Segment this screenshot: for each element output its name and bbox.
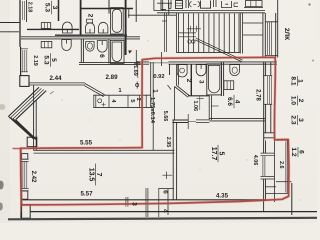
svg-text:1: 1 xyxy=(152,89,159,93)
svg-text:1.69: 1.69 xyxy=(132,65,138,76)
svg-text:2.42: 2.42 xyxy=(30,171,37,183)
svg-text:2.78: 2.78 xyxy=(254,89,260,101)
svg-text:5.66: 5.66 xyxy=(162,111,168,122)
svg-text:5.3: 5.3 xyxy=(44,3,51,12)
svg-text:1: 1 xyxy=(297,79,304,83)
svg-text:6: 6 xyxy=(297,150,304,154)
svg-text:5: 5 xyxy=(50,58,57,62)
svg-text:2.3: 2.3 xyxy=(290,115,297,124)
svg-text:2.44: 2.44 xyxy=(49,75,62,82)
svg-text:0.92: 0.92 xyxy=(153,74,164,80)
svg-text:1.2: 1.2 xyxy=(290,147,297,156)
svg-text:4: 4 xyxy=(233,100,240,104)
svg-text:2: 2 xyxy=(135,98,141,101)
svg-text:2.89: 2.89 xyxy=(105,74,118,81)
svg-text:2.6: 2.6 xyxy=(278,161,284,169)
svg-text:2: 2 xyxy=(87,14,94,18)
svg-text:3: 3 xyxy=(297,118,304,122)
svg-text:7: 7 xyxy=(95,173,102,177)
svg-text:2ЛК: 2ЛК xyxy=(283,28,290,41)
svg-text:17.7: 17.7 xyxy=(210,147,217,161)
svg-text:5.3: 5.3 xyxy=(43,55,50,64)
svg-text:4: 4 xyxy=(162,209,169,213)
svg-text:2: 2 xyxy=(185,79,192,83)
svg-text:8.1: 8.1 xyxy=(290,76,297,85)
svg-text:1.75x0.14: 1.75x0.14 xyxy=(149,97,155,123)
svg-text:5: 5 xyxy=(129,99,135,102)
svg-text:6: 6 xyxy=(98,54,105,58)
svg-text:3: 3 xyxy=(130,202,137,206)
svg-text:6.6: 6.6 xyxy=(226,97,233,106)
svg-text:4.06: 4.06 xyxy=(252,155,258,166)
svg-text:2.95: 2.95 xyxy=(165,137,171,148)
svg-text:5.55: 5.55 xyxy=(80,139,93,146)
svg-text:1.0: 1.0 xyxy=(290,96,297,105)
svg-text:2.19: 2.19 xyxy=(32,55,38,66)
svg-text:2.18: 2.18 xyxy=(27,2,33,13)
svg-text:6: 6 xyxy=(161,190,168,194)
svg-text:4.35: 4.35 xyxy=(216,192,229,199)
svg-text:3: 3 xyxy=(51,6,58,10)
svg-text:2: 2 xyxy=(297,99,304,103)
svg-text:5.57: 5.57 xyxy=(80,190,93,197)
svg-text:13.5: 13.5 xyxy=(87,168,94,182)
svg-text:1.06: 1.06 xyxy=(192,101,198,112)
svg-text:5: 5 xyxy=(218,152,225,156)
